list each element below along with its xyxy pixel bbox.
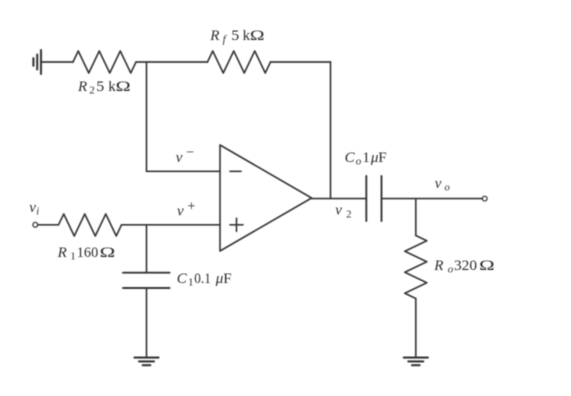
svg-text:v2: v2	[335, 203, 351, 221]
resistor R2	[73, 51, 136, 73]
wire node B down to C1	[146, 225, 148, 273]
terminal vo	[482, 196, 487, 201]
capacitor Co	[366, 176, 381, 221]
svg-text:R25kΩ: R25kΩ	[77, 79, 131, 97]
resistor R1	[59, 214, 122, 236]
terminal vi	[33, 222, 38, 227]
svg-text:vi: vi	[29, 200, 39, 218]
svg-text:Ro320Ω: Ro320Ω	[433, 258, 495, 276]
wire vi to R1	[38, 224, 59, 226]
svg-text:v−: v−	[176, 146, 194, 167]
ground GND2	[135, 358, 159, 366]
ground GND3	[404, 358, 428, 366]
wire GND1 to R2	[41, 61, 73, 63]
wire op-amp output to Co	[312, 198, 367, 200]
wire Co to terminal vo	[382, 198, 483, 200]
svg-text:Rf5kΩ: Rf5kΩ	[209, 28, 264, 46]
wire right vertical down to output node	[330, 62, 332, 199]
capacitor C1	[123, 273, 170, 288]
svg-text:R1160Ω: R1160Ω	[57, 245, 116, 263]
resistor Rf	[208, 51, 271, 73]
wire Rf to right corner	[271, 61, 331, 63]
resistor Ro	[405, 236, 427, 299]
svg-text:vo: vo	[435, 176, 450, 194]
ground GND1 (left, rotated)	[33, 50, 41, 74]
wire R1 to op-amp non-inverting input	[122, 224, 221, 226]
svg-text:Co1μF: Co1μF	[345, 150, 387, 168]
wire R2 to node A	[136, 61, 147, 63]
svg-text:C10.1μF: C10.1μF	[177, 271, 232, 289]
wire v- to op-amp inverting input	[147, 170, 221, 172]
wire node C down to Ro	[415, 199, 417, 236]
svg-text:v+: v+	[177, 199, 195, 220]
wire Ro to GND3	[415, 299, 417, 358]
wire node A down to v- level	[146, 62, 148, 171]
op-amp U1	[220, 145, 312, 251]
wire C1 to GND2	[146, 288, 148, 358]
wire node A to Rf	[147, 61, 208, 63]
